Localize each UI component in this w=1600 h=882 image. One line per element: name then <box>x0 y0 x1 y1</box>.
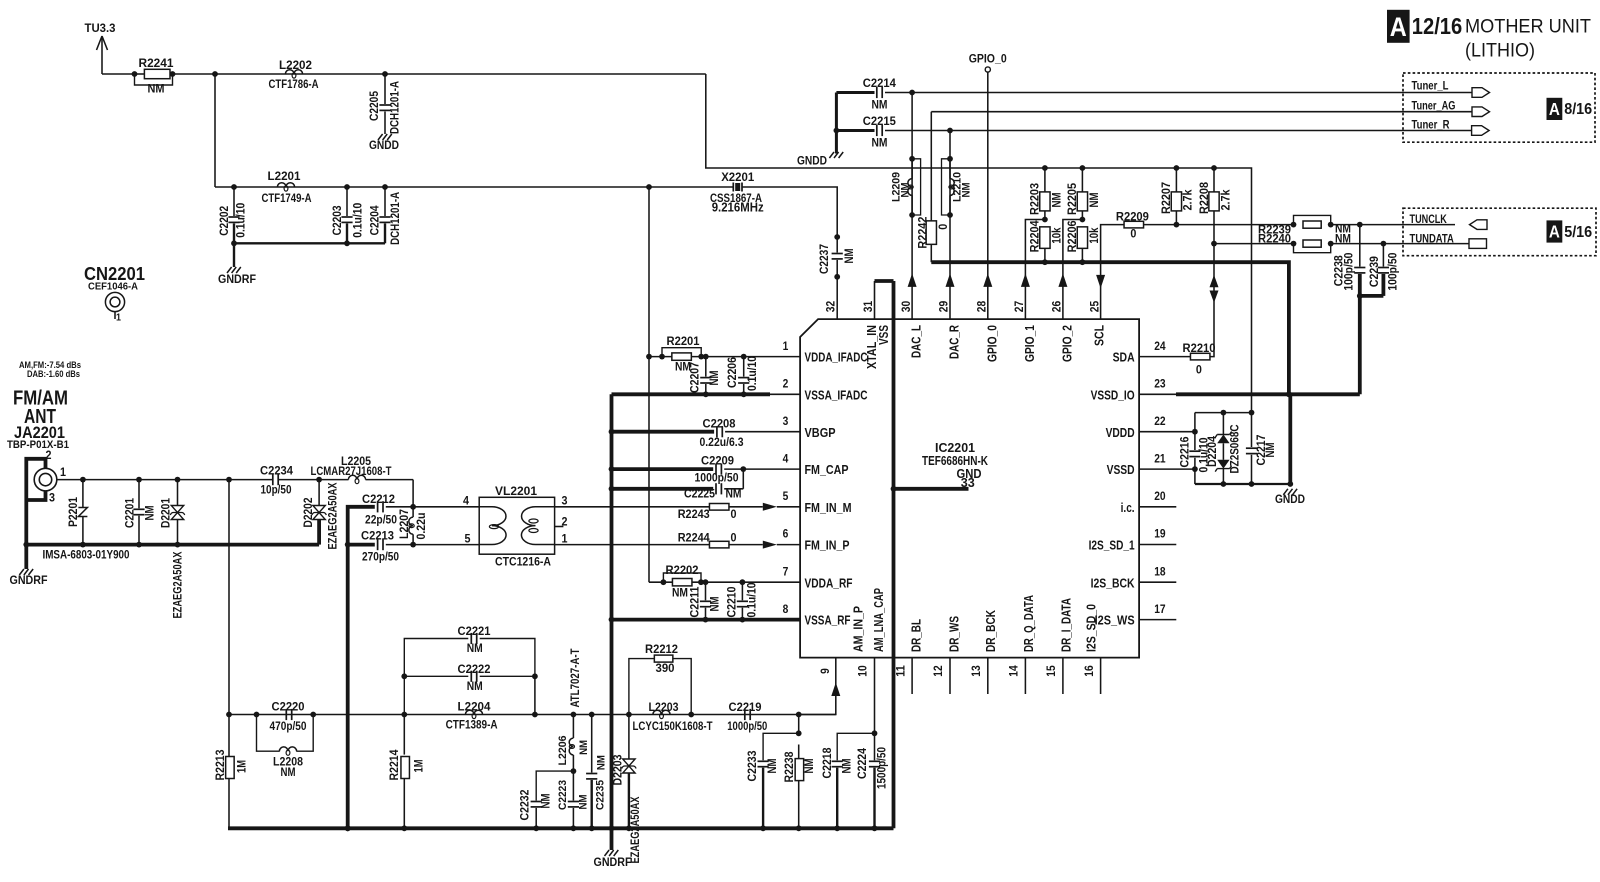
arrow into FM_IN_M <box>763 503 777 511</box>
svg-text:GNDRF: GNDRF <box>218 274 256 286</box>
svg-text:C2202: C2202 <box>219 206 231 236</box>
svg-text:0: 0 <box>938 224 950 230</box>
svg-text:6: 6 <box>783 527 789 541</box>
resistor R2244 <box>709 541 729 548</box>
svg-text:NM: NM <box>960 183 972 198</box>
svg-text:21: 21 <box>1154 451 1166 465</box>
svg-text:R2242: R2242 <box>917 217 929 249</box>
ground GNDD at C2205 <box>378 134 383 140</box>
svg-text:C2204: C2204 <box>370 205 382 236</box>
wire FM node to transformer pin4 <box>413 506 479 508</box>
capacitor C2216 <box>1194 413 1196 450</box>
capacitor C2222 <box>404 675 468 677</box>
svg-text:390: 390 <box>656 663 675 675</box>
svg-text:VSS: VSS <box>876 325 891 345</box>
terminal arrow Tuner_R <box>1472 126 1490 136</box>
svg-text:3: 3 <box>783 414 789 428</box>
svg-text:3: 3 <box>49 493 55 505</box>
wire GNDD elbow C2214/C2215 <box>836 91 874 94</box>
wire bottom ground bus <box>228 826 894 830</box>
svg-text:NM: NM <box>709 371 721 386</box>
capacitor C2238 <box>1357 222 1363 228</box>
wire VDDA_RF row pin7 <box>649 581 800 583</box>
svg-text:9: 9 <box>818 668 832 674</box>
svg-text:0.1u/10: 0.1u/10 <box>353 203 365 238</box>
terminal arrow Tuner_AG <box>1472 107 1490 117</box>
svg-text:27: 27 <box>1012 301 1026 313</box>
svg-text:R2206: R2206 <box>1067 220 1079 252</box>
svg-text:NM: NM <box>467 681 483 693</box>
svg-text:16: 16 <box>1082 665 1096 677</box>
resistor R2207 <box>1174 165 1180 171</box>
svg-text:(LITHIO): (LITHIO) <box>1465 39 1535 61</box>
svg-text:NM: NM <box>844 249 856 264</box>
svg-text:5: 5 <box>465 534 472 546</box>
svg-text:2: 2 <box>783 377 789 391</box>
svg-text:DR_Q_DATA: DR_Q_DATA <box>1021 595 1036 652</box>
capacitor C2211 <box>703 579 709 585</box>
svg-text:R2204: R2204 <box>1030 220 1042 253</box>
svg-text:VSSA_RF: VSSA_RF <box>805 613 851 628</box>
wire FM_CAP row pin4 <box>609 466 615 472</box>
capacitor C2205 <box>382 71 388 77</box>
svg-text:17: 17 <box>1154 602 1166 616</box>
svg-text:C2215: C2215 <box>863 116 897 128</box>
crystal X2201 <box>732 183 734 192</box>
svg-text:NM: NM <box>804 759 816 774</box>
wire stem to GNDRF antenna <box>24 545 28 569</box>
svg-text:C2220: C2220 <box>272 702 305 714</box>
svg-text:NM: NM <box>596 755 608 770</box>
svg-text:7: 7 <box>783 564 789 578</box>
svg-text:C2235: C2235 <box>594 780 606 810</box>
svg-text:NM: NM <box>578 740 590 755</box>
inductor L2209 <box>912 159 921 215</box>
resistor R2212 <box>629 659 654 715</box>
diode D2202 <box>318 480 320 506</box>
svg-text:Tuner_R: Tuner_R <box>1412 119 1451 131</box>
ground GNDD top <box>829 152 834 158</box>
svg-text:CTF1389-A: CTF1389-A <box>446 720 498 732</box>
svg-text:R2213: R2213 <box>215 750 227 781</box>
svg-text:CTF1786-A: CTF1786-A <box>269 79 319 91</box>
capacitor C2224 <box>874 733 876 760</box>
svg-text:LCMAR27J1608-T: LCMAR27J1608-T <box>311 466 392 478</box>
svg-text:8: 8 <box>783 602 789 616</box>
svg-text:2.7k: 2.7k <box>1221 189 1233 211</box>
ground GNDD right <box>1283 489 1288 495</box>
svg-text:R2202: R2202 <box>666 565 699 577</box>
capacitor C2210 <box>740 579 746 585</box>
svg-text:0: 0 <box>731 532 737 544</box>
svg-text:20: 20 <box>1154 489 1166 503</box>
capacitor C2235 <box>589 712 595 718</box>
capacitor C2232 <box>536 771 573 800</box>
svg-text:C2224: C2224 <box>857 747 869 779</box>
svg-text:33: 33 <box>961 476 975 490</box>
capacitor C2220 <box>254 712 260 718</box>
svg-text:1: 1 <box>60 467 67 479</box>
connector JA2201 <box>34 468 57 491</box>
svg-text:Tuner_AG: Tuner_AG <box>1412 100 1456 112</box>
capacitor C2234 <box>272 474 274 485</box>
svg-text:NM: NM <box>872 99 888 111</box>
svg-text:D2201: D2201 <box>161 497 173 528</box>
svg-text:C2205: C2205 <box>369 90 381 121</box>
wire thick GNDD leg <box>1288 394 1292 484</box>
svg-text:25: 25 <box>1087 301 1101 313</box>
svg-text:C2209: C2209 <box>701 456 734 468</box>
svg-text:DR_I_DATA: DR_I_DATA <box>1058 598 1073 652</box>
svg-text:R2207: R2207 <box>1161 182 1173 214</box>
resistor R2206 <box>1077 227 1087 249</box>
wire crystal to pin32 <box>742 187 837 237</box>
svg-text:DR_BL: DR_BL <box>909 619 924 652</box>
svg-text:VDDA_RF: VDDA_RF <box>805 575 853 590</box>
ground GNDRF antenna <box>19 569 24 575</box>
inductor L2203 <box>653 710 670 714</box>
resistor R2243 <box>709 504 729 511</box>
capacitor C2209 <box>715 464 717 475</box>
svg-text:DR_BCK: DR_BCK <box>983 610 998 652</box>
svg-text:C2206: C2206 <box>727 357 739 388</box>
svg-text:3: 3 <box>562 496 568 508</box>
wire C2213 row <box>348 543 375 547</box>
svg-text:TU3.3: TU3.3 <box>85 23 116 35</box>
wire AM_LNA_CAP pin10 <box>874 658 876 734</box>
svg-text:C2223: C2223 <box>557 780 569 810</box>
wire C2225 hook to FM_CAP <box>742 469 744 489</box>
terminal arrow TUNCLK <box>1470 220 1488 230</box>
svg-text:GPIO_1: GPIO_1 <box>1022 325 1037 362</box>
svg-text:10p/50: 10p/50 <box>261 485 292 497</box>
svg-text:NM: NM <box>541 794 553 809</box>
svg-text:270p/50: 270p/50 <box>362 552 399 564</box>
resistor R2205 <box>1080 165 1086 171</box>
wire stem to GNDRF <box>233 243 235 267</box>
IC U IC2201 TEF6686HN-K outline <box>800 319 1139 657</box>
svg-text:1000p/50: 1000p/50 <box>727 721 767 733</box>
svg-text:0.1u/10: 0.1u/10 <box>747 583 759 618</box>
zener diode D2204 <box>1222 413 1224 435</box>
wire TU3.3 rail <box>102 73 135 75</box>
svg-text:30: 30 <box>899 301 913 313</box>
wire DAC_R line <box>949 131 951 320</box>
terminal arrow Tuner_L <box>1472 88 1490 98</box>
svg-text:10: 10 <box>856 665 870 677</box>
diode D2201 <box>175 477 181 483</box>
svg-text:X2201: X2201 <box>721 172 755 184</box>
wire VBGP row pin3 <box>609 429 615 435</box>
svg-text:1M: 1M <box>237 760 249 773</box>
connector box A5/16 <box>1403 208 1596 256</box>
svg-text:GNDD: GNDD <box>1275 494 1305 506</box>
capacitor C2215 <box>876 125 878 136</box>
svg-text:28: 28 <box>975 301 989 313</box>
svg-text:NM: NM <box>467 643 483 655</box>
wire antenna row <box>57 479 272 481</box>
wire VSSA_IFADC row pin2 <box>612 392 771 396</box>
svg-text:D2202: D2202 <box>303 498 315 528</box>
svg-text:C2237: C2237 <box>819 244 831 274</box>
capacitor C2237 <box>836 237 838 253</box>
svg-text:C2216: C2216 <box>1179 437 1191 468</box>
wire Tuner_R row <box>885 130 1472 132</box>
svg-text:C2221: C2221 <box>458 626 492 638</box>
wire VDDD network bottom rail <box>1195 483 1290 485</box>
wire VDDA_IFADC row pin1 <box>649 356 800 358</box>
svg-text:5: 5 <box>783 489 789 503</box>
svg-text:SCL: SCL <box>1092 325 1107 346</box>
terminal TUNDATA <box>1469 239 1487 249</box>
ground GNDRF at C2202 <box>227 267 232 273</box>
svg-text:1: 1 <box>783 339 789 353</box>
svg-text:DCH1201-A: DCH1201-A <box>390 192 402 245</box>
svg-text:FM_CAP: FM_CAP <box>805 462 849 477</box>
arrow into GPIO_2 pin26 <box>1058 273 1067 287</box>
inductor L2202 <box>285 70 302 74</box>
svg-text:L2202: L2202 <box>279 60 312 72</box>
svg-text:I2S_BCK: I2S_BCK <box>1091 575 1135 590</box>
svg-text:R2212: R2212 <box>645 644 678 656</box>
svg-text:A: A <box>1390 12 1407 42</box>
svg-text:1M: 1M <box>414 760 426 773</box>
svg-text:26: 26 <box>1050 301 1064 313</box>
svg-text:NM: NM <box>710 597 722 612</box>
svg-text:C2212: C2212 <box>362 494 395 506</box>
svg-text:R2209: R2209 <box>1116 212 1149 224</box>
inductor L2205 <box>316 477 322 483</box>
svg-text:14: 14 <box>1007 665 1021 677</box>
svg-text:0.22u: 0.22u <box>416 513 428 540</box>
arrow into DAC_R <box>946 273 955 287</box>
svg-text:MOTHER UNIT: MOTHER UNIT <box>1465 15 1591 37</box>
svg-text:9.216MHz: 9.216MHz <box>712 201 764 215</box>
capacitor C2217 <box>1251 413 1253 447</box>
svg-text:TBP-P01X-B1: TBP-P01X-B1 <box>7 439 69 451</box>
svg-text:NM: NM <box>899 183 911 198</box>
svg-text:C2201: C2201 <box>125 497 137 528</box>
svg-text:NM: NM <box>145 506 157 521</box>
svg-text:12/16: 12/16 <box>1412 13 1463 39</box>
diode D2203 <box>626 712 632 718</box>
inductor L2201 <box>277 183 294 187</box>
wire antenna ground bus <box>26 543 319 547</box>
svg-text:19: 19 <box>1154 527 1166 541</box>
svg-text:1500p/50: 1500p/50 <box>877 747 889 789</box>
wire VDDD pin22 row <box>1139 431 1195 433</box>
svg-text:DAB:-1.60 dBs: DAB:-1.60 dBs <box>27 369 80 379</box>
arrow into FM_IN_P <box>763 541 777 549</box>
capacitor C2223 <box>572 771 574 800</box>
wire AM row to pin9 <box>799 658 836 715</box>
svg-text:NM: NM <box>672 587 688 599</box>
svg-text:18: 18 <box>1154 564 1166 578</box>
wire ground return C2202-C2204 <box>234 242 385 244</box>
svg-text:C2232: C2232 <box>520 790 532 821</box>
wire thick ground bus x611 <box>610 394 614 850</box>
svg-text:R2203: R2203 <box>1030 183 1042 215</box>
arrow into AM_IN_P pin9 <box>831 683 840 697</box>
connector box A8/16 <box>1403 73 1595 142</box>
svg-text:10k: 10k <box>1089 227 1101 244</box>
svg-text:0.22u/6.3: 0.22u/6.3 <box>700 437 744 449</box>
svg-text:2.7k: 2.7k <box>1183 189 1195 211</box>
resistor R2210 <box>1190 353 1210 360</box>
svg-text:4: 4 <box>463 496 470 508</box>
svg-text:SDA: SDA <box>1113 350 1135 365</box>
svg-text:C2203: C2203 <box>332 205 344 235</box>
svg-text:C2208: C2208 <box>703 419 737 431</box>
svg-text:CEF1046-A: CEF1046-A <box>88 280 138 292</box>
svg-text:I2S_SD_1: I2S_SD_1 <box>1089 538 1135 553</box>
svg-text:GPIO_0: GPIO_0 <box>984 325 999 362</box>
svg-text:TUNCLK: TUNCLK <box>1410 214 1448 226</box>
svg-text:P2201: P2201 <box>68 496 80 527</box>
svg-text:R2238: R2238 <box>784 751 796 783</box>
svg-text:CTF1749-A: CTF1749-A <box>262 193 312 205</box>
svg-text:4: 4 <box>783 451 789 465</box>
svg-text:NM: NM <box>872 137 888 149</box>
svg-text:R2240: R2240 <box>1258 234 1291 246</box>
svg-text:L2206: L2206 <box>557 736 569 766</box>
svg-text:R2205: R2205 <box>1067 182 1079 215</box>
transformer VL2201 <box>479 497 554 554</box>
capacitor C2202 <box>231 184 237 190</box>
wire antenna pins 2,3 to ground bracket <box>26 459 45 545</box>
svg-text:VDDA_IFADC: VDDA_IFADC <box>805 350 868 365</box>
arrow into SCL pin25 <box>1096 275 1105 289</box>
wire vertical 215 to lower rail <box>214 74 216 187</box>
svg-text:0: 0 <box>1130 229 1136 241</box>
wire VSSD_IO row <box>1139 393 1176 395</box>
svg-text:Tuner_L: Tuner_L <box>1412 80 1449 92</box>
capacitor C2206 <box>741 354 747 360</box>
svg-text:15: 15 <box>1044 665 1058 677</box>
svg-text:L2203: L2203 <box>649 702 679 714</box>
wire FM node2 to transformer pin5 <box>413 544 479 546</box>
wire GPIO_0 line <box>987 72 989 319</box>
svg-text:C2234: C2234 <box>260 466 294 478</box>
svg-text:VL2201: VL2201 <box>495 484 537 498</box>
capacitor C2225 <box>715 483 717 494</box>
svg-text:DAC_L: DAC_L <box>909 325 924 358</box>
wire thick ground bus x893 <box>892 281 896 828</box>
capacitor C2214 <box>876 87 878 98</box>
wire VSS pin31 loop to ground bus <box>874 281 876 319</box>
wire vertical antenna to AM row <box>226 477 232 483</box>
svg-text:VDDD: VDDD <box>1106 425 1135 440</box>
svg-text:EZAEG2A50AX: EZAEG2A50AX <box>328 482 340 549</box>
svg-text:0: 0 <box>1196 364 1202 376</box>
wire Tuner_L row <box>885 92 1472 94</box>
resistor R2209 <box>1124 221 1144 228</box>
svg-text:AM_LNA_CAP: AM_LNA_CAP <box>871 588 886 652</box>
arrow bidirectional SDA <box>1210 275 1219 287</box>
wire L2201 rail <box>215 186 733 188</box>
svg-text:1: 1 <box>562 534 569 546</box>
svg-text:VSSD_IO: VSSD_IO <box>1091 387 1135 402</box>
svg-text:GNDD: GNDD <box>369 140 399 152</box>
svg-text:TUNDATA: TUNDATA <box>1410 233 1454 245</box>
svg-text:R2241: R2241 <box>139 58 175 70</box>
svg-text:DZ2S068C: DZ2S068C <box>1229 425 1241 474</box>
resistor R2201 <box>662 348 701 357</box>
svg-text:R2243: R2243 <box>678 509 710 521</box>
arrow into GPIO_0 pin28 <box>983 273 992 287</box>
svg-text:C2233: C2233 <box>747 751 759 782</box>
resistor R2242 <box>930 112 932 221</box>
svg-text:100p/50: 100p/50 <box>1388 253 1400 291</box>
capacitor C2204 <box>382 184 388 190</box>
svg-text:CTC1216-A: CTC1216-A <box>495 555 551 569</box>
svg-text:IMSA-6803-01Y900: IMSA-6803-01Y900 <box>43 550 130 562</box>
svg-text:DAC_R: DAC_R <box>947 325 962 359</box>
svg-text:C2210: C2210 <box>727 587 739 618</box>
wire AM row <box>229 714 836 716</box>
resistor R2239 <box>1294 215 1331 224</box>
wire TUNDATA row <box>1214 243 1294 245</box>
arrow into GPIO_1 pin27 <box>1021 273 1030 287</box>
svg-text:13: 13 <box>969 665 983 677</box>
svg-text:R2201: R2201 <box>667 336 701 348</box>
wire transformer pin3 to R2243 <box>555 506 710 508</box>
ground GNDRF bottom <box>605 850 610 856</box>
svg-text:NM: NM <box>1052 193 1064 208</box>
svg-text:C2225: C2225 <box>684 489 716 501</box>
capacitor C2201 <box>136 477 142 483</box>
svg-text:TEF6686HN-K: TEF6686HN-K <box>922 454 988 468</box>
wire ground elbow x347.7 <box>348 507 375 829</box>
inductor L2210 <box>942 159 951 215</box>
svg-text:23: 23 <box>1154 377 1166 391</box>
wire GPIO_1 tap <box>1025 220 1045 320</box>
svg-text:1: 1 <box>116 312 121 324</box>
svg-text:EZAEG2A50AX: EZAEG2A50AX <box>173 551 185 618</box>
capacitor C2213 <box>377 539 379 550</box>
svg-text:I2S_WS: I2S_WS <box>1095 613 1135 628</box>
inductor L2208 <box>257 715 280 752</box>
svg-text:i.c.: i.c. <box>1121 500 1135 515</box>
resistor R2208 <box>1211 165 1217 171</box>
capacitor C2212 <box>377 501 379 512</box>
svg-text:L2204: L2204 <box>458 702 492 714</box>
svg-text:DR_WS: DR_WS <box>947 616 962 652</box>
svg-text:FM_IN_M: FM_IN_M <box>805 500 852 515</box>
wire transformer pin1 to R2244 <box>555 544 710 546</box>
capacitor C2203 <box>344 184 350 190</box>
svg-text:12: 12 <box>931 665 945 677</box>
svg-text:R2210: R2210 <box>1183 343 1216 355</box>
wire VSSD pin21 row <box>1139 468 1195 470</box>
capacitor C2207 <box>703 354 709 360</box>
svg-text:NM: NM <box>767 759 779 774</box>
svg-text:10k: 10k <box>1052 227 1064 244</box>
resistor R2240 <box>1294 244 1331 253</box>
svg-text:C2207: C2207 <box>690 362 702 393</box>
svg-text:L2201: L2201 <box>268 171 302 183</box>
svg-text:LCYC150K1608-T: LCYC150K1608-T <box>633 721 713 733</box>
svg-text:0.1u/10: 0.1u/10 <box>747 356 759 391</box>
wire VDDA vertical x649 <box>648 187 650 582</box>
svg-text:NM: NM <box>578 795 590 810</box>
sheet title A12/16 MOTHER UNIT (LITHIO) <box>1387 10 1410 43</box>
wire VSSA_RF row pin8 <box>609 617 615 623</box>
resistor R2202 <box>663 573 701 582</box>
svg-text:GNDRF: GNDRF <box>10 575 48 587</box>
svg-text:C2214: C2214 <box>863 78 897 90</box>
svg-text:NM: NM <box>148 84 165 96</box>
